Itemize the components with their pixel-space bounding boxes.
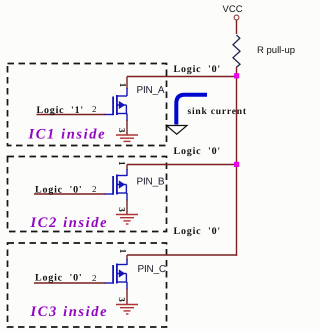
svg-text:Logic '0': Logic '0' [35,273,82,284]
wire drain riser Q2 [126,165,128,171]
svg-text:Logic '0': Logic '0' [174,64,221,75]
wire net A horizontal [127,76,237,78]
svg-text:IC3 inside: IC3 inside [30,304,109,320]
wire gate Q1 [37,114,106,116]
ground IC1 [116,135,138,141]
wire net C horizontal [127,254,237,256]
node B junction [234,162,239,167]
transistor Q2 (N-MOSFET) [104,169,127,201]
svg-text:Logic '0': Logic '0' [35,185,82,196]
transistor Q3 (N-MOSFET) [104,259,127,290]
wire drain riser Q1 [126,77,128,90]
svg-text:2: 2 [92,273,97,283]
svg-text:2: 2 [92,184,97,194]
svg-text:1: 1 [118,83,128,88]
VCC power port circle [234,15,239,20]
IC1 dashed box [8,64,167,146]
svg-text:3: 3 [117,297,127,302]
wire source Q2 [126,200,128,215]
svg-text:Logic '0': Logic '0' [174,226,221,237]
svg-text:VCC: VCC [223,4,243,15]
svg-text:sink current: sink current [188,107,247,117]
svg-text:Logic '1': Logic '1' [37,105,84,116]
svg-text:PIN_A: PIN_A [137,85,165,96]
svg-text:PIN_C: PIN_C [138,264,166,275]
svg-text:2: 2 [92,104,97,114]
ground IC3 [116,305,138,315]
svg-text:1: 1 [117,161,127,166]
sink current arrow [176,95,207,125]
wire gate Q2 [34,193,105,195]
IC2 dashed box [8,157,167,232]
svg-text:IC2 inside: IC2 inside [30,215,109,231]
resistor R pull-up [233,35,240,67]
wire drain riser Q3 [126,255,128,260]
svg-text:IC1 inside: IC1 inside [28,127,107,143]
wire bus vertical [236,77,238,256]
transistor Q1 (N-MOSFET) [104,88,127,121]
wire net B horizontal [127,164,237,166]
svg-text:1: 1 [118,249,128,254]
IC3 dashed box [8,243,167,327]
svg-text:Logic '0': Logic '0' [174,146,221,157]
svg-text:PIN_B: PIN_B [137,177,165,188]
svg-text:3: 3 [117,207,127,212]
wire gate Q3 [34,282,105,284]
node A junction [234,73,239,78]
wire resistor to node A [236,67,238,77]
wire source Q1 [126,120,128,135]
svg-text:R pull-up: R pull-up [257,45,295,56]
ground IC2 [116,215,138,225]
wire VCC to resistor [236,20,238,34]
wire source Q3 [126,289,128,305]
sink arrowhead [167,126,188,135]
svg-text:3: 3 [117,128,127,133]
